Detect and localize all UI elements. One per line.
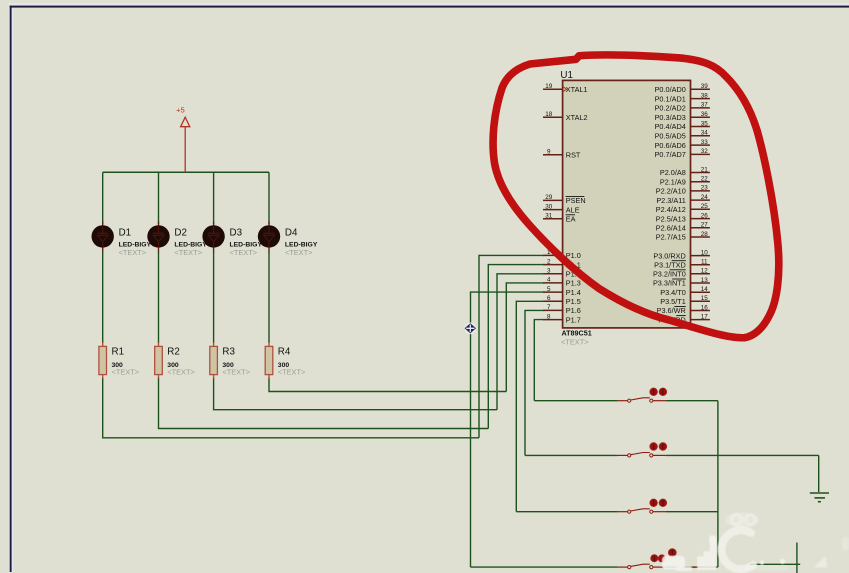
svg-text:21: 21 <box>701 166 709 173</box>
wire switch row SW1 left <box>534 400 618 402</box>
pin 18 XTAL2 (left) <box>543 111 588 122</box>
svg-text:P0.2/AD2: P0.2/AD2 <box>655 104 686 113</box>
pin 2 P1.1 (left) <box>543 258 581 269</box>
wire P1.3 to bus vertical <box>506 283 544 392</box>
svg-text:PSEN: PSEN <box>566 196 586 205</box>
svg-text:ALE: ALE <box>566 205 580 214</box>
switch SW3 <box>618 499 667 513</box>
svg-text:P2.0/A8: P2.0/A8 <box>660 168 686 177</box>
svg-text:15: 15 <box>701 295 709 302</box>
svg-text:XTAL2: XTAL2 <box>566 113 588 122</box>
wire SW2 to ground <box>818 455 820 492</box>
svg-text:9: 9 <box>547 149 551 156</box>
svg-text:19: 19 <box>545 83 553 90</box>
pin 6 P1.5 (left) <box>543 295 581 306</box>
pin 25 P2.4/A12 (right) <box>656 203 710 214</box>
pin 8 P1.7 (left) <box>543 313 581 324</box>
pin 30 ALE (left) <box>543 203 580 214</box>
pin 28 P2.7/A15 (right) <box>656 231 710 242</box>
svg-text:P3.0/RXD: P3.0/RXD <box>653 251 685 260</box>
pin 33 P0.6/AD6 (right) <box>655 139 710 150</box>
svg-text:<TEXT>: <TEXT> <box>119 248 147 257</box>
svg-text:<TEXT>: <TEXT> <box>285 248 313 257</box>
svg-text:P2.5/A13: P2.5/A13 <box>656 214 686 223</box>
wire switch row SW4 right <box>665 566 718 568</box>
pin 35 P0.4/AD4 (right) <box>655 120 710 131</box>
wire LED/resistor column D3 <box>214 172 497 409</box>
svg-text:36: 36 <box>701 111 709 118</box>
power terminal +5 <box>176 106 190 173</box>
pin 4 P1.3 (left) <box>543 277 581 288</box>
wire switch row SW4 left <box>471 566 618 568</box>
svg-text:28: 28 <box>701 231 709 238</box>
svg-text:4: 4 <box>547 277 551 284</box>
svg-text:P1.6: P1.6 <box>566 306 581 315</box>
pin 10 P3.0/RXD (right) <box>653 249 710 260</box>
resistor R2 <box>155 346 195 376</box>
wire P1.7 to bus vertical <box>534 320 544 401</box>
svg-text:26: 26 <box>701 212 709 219</box>
wire switch row SW3 right <box>665 511 718 513</box>
pin 15 P3.5/T1 (right) <box>660 295 710 306</box>
wire P1.0 to bus vertical <box>479 255 545 437</box>
pin 21 P2.0/A8 (right) <box>660 166 710 177</box>
svg-text:U1: U1 <box>560 70 573 81</box>
pin 16 P3.6/WR (right) <box>657 304 710 315</box>
svg-text:10: 10 <box>701 249 709 256</box>
pin 32 P0.7/AD7 (right) <box>655 148 710 159</box>
svg-text:34: 34 <box>701 130 709 137</box>
pin 29 PSEN (left) <box>543 194 586 205</box>
wire P1.6 to bus vertical <box>525 310 545 455</box>
svg-text:P0.5/AD5: P0.5/AD5 <box>655 132 686 141</box>
svg-text:27: 27 <box>701 222 709 229</box>
wire switch row SW1 right <box>665 400 718 402</box>
svg-text:P2.6/A14: P2.6/A14 <box>656 224 686 233</box>
svg-text:D2: D2 <box>174 227 187 238</box>
svg-text:P3.1/TXD: P3.1/TXD <box>654 260 686 269</box>
wire P1.2 to bus vertical <box>497 274 545 410</box>
wire LED/resistor column D4 <box>269 172 506 391</box>
svg-text:12: 12 <box>701 268 709 275</box>
pin 36 P0.3/AD3 (right) <box>655 111 710 122</box>
svg-text:R4: R4 <box>278 347 291 358</box>
svg-text:<TEXT>: <TEXT> <box>174 248 202 257</box>
pin 24 P2.3/A11 (right) <box>656 194 710 205</box>
pin 3 P1.2 (left) <box>543 268 581 279</box>
svg-text:<TEXT>: <TEXT> <box>222 367 250 376</box>
pin 37 P0.2/AD2 (right) <box>655 102 710 113</box>
svg-text:P3.6/WR: P3.6/WR <box>657 306 686 315</box>
pin 9 RST (left) <box>543 149 581 160</box>
svg-text:5: 5 <box>547 286 551 293</box>
svg-text:AT89C51: AT89C51 <box>562 329 592 338</box>
wire LED/resistor column D2 <box>159 172 489 428</box>
pin 5 P1.4 (left) <box>543 286 581 297</box>
svg-text:D4: D4 <box>285 227 298 238</box>
pin 39 P0.0/AD0 (right) <box>655 83 710 94</box>
svg-text:P2.2/A10: P2.2/A10 <box>656 187 686 196</box>
svg-text:P3.3/INT1: P3.3/INT1 <box>653 279 686 288</box>
node +5 power bus wire <box>103 171 269 173</box>
LED D1 labels <box>119 227 152 257</box>
node marker (blue diamond cursor) <box>465 323 477 335</box>
svg-text:P0.7/AD7: P0.7/AD7 <box>655 150 686 159</box>
svg-text:6: 6 <box>547 295 551 302</box>
svg-text:13: 13 <box>701 277 709 284</box>
svg-text:11: 11 <box>701 259 708 266</box>
ground <box>810 493 829 502</box>
pin 26 P2.5/A13 (right) <box>656 212 710 223</box>
wire switch row SW2 left <box>525 454 618 456</box>
svg-text:EA: EA <box>566 215 576 224</box>
LED D4 labels <box>285 227 318 257</box>
wire junction vertical SW1/SW3/SW4 <box>717 401 719 567</box>
LED D3 labels <box>230 227 263 257</box>
svg-text:<TEXT>: <TEXT> <box>230 248 258 257</box>
svg-text:24: 24 <box>701 194 709 201</box>
svg-text:2: 2 <box>547 258 551 265</box>
pin 12 P3.2/INT0 (right) <box>653 268 710 279</box>
switch SW4 buttons <box>651 549 702 567</box>
LED D2 labels <box>174 227 207 257</box>
wire switch row SW3 left <box>516 511 618 513</box>
svg-text:P2.7/A15: P2.7/A15 <box>656 233 686 242</box>
pin 34 P0.5/AD5 (right) <box>655 130 710 141</box>
svg-text:<TEXT>: <TEXT> <box>561 337 589 346</box>
svg-text:35: 35 <box>701 120 709 127</box>
svg-text:18: 18 <box>545 111 553 118</box>
svg-text:P0.1/AD1: P0.1/AD1 <box>655 94 686 103</box>
svg-text:P1.4: P1.4 <box>566 288 581 297</box>
svg-text:P3.2/INT0: P3.2/INT0 <box>653 270 686 279</box>
resistor R3 <box>210 346 250 376</box>
svg-text:30: 30 <box>545 203 553 210</box>
wire bottom-right stub <box>750 543 800 573</box>
pin 31 EA (left) <box>543 213 576 224</box>
svg-text:D1: D1 <box>119 227 132 238</box>
svg-text:P3.5/T1: P3.5/T1 <box>660 297 686 306</box>
svg-text:25: 25 <box>701 203 709 210</box>
microcontroller U1 AT89C51 <box>560 70 690 346</box>
svg-text:R3: R3 <box>222 347 235 358</box>
resistor R1 <box>99 346 139 376</box>
LED D3 <box>202 225 224 247</box>
svg-text:R2: R2 <box>167 347 180 358</box>
svg-text:P2.3/A11: P2.3/A11 <box>656 196 685 205</box>
pin 14 P3.4/T0 (right) <box>660 286 710 297</box>
svg-text:17: 17 <box>701 313 709 320</box>
pin 19 XTAL1 (left) <box>543 83 588 94</box>
svg-text:R1: R1 <box>112 347 125 358</box>
svg-text:P0.4/AD4: P0.4/AD4 <box>655 122 686 131</box>
pin 7 P1.6 (left) <box>543 304 581 315</box>
pin 22 P2.1/A9 (right) <box>660 176 710 187</box>
wire P1.4 to bus vertical <box>471 292 545 567</box>
pin 27 P2.6/A14 (right) <box>656 222 710 233</box>
svg-text:16: 16 <box>701 304 709 311</box>
svg-text:31: 31 <box>545 213 553 220</box>
LED D1 <box>92 225 114 247</box>
svg-text:P1.3: P1.3 <box>566 279 581 288</box>
svg-text:8: 8 <box>547 313 551 320</box>
svg-text:32: 32 <box>701 148 709 155</box>
wire P1.1 to bus vertical <box>488 265 544 429</box>
svg-text:P0.0/AD0: P0.0/AD0 <box>655 85 686 94</box>
svg-text:+5: +5 <box>176 106 185 115</box>
svg-text:37: 37 <box>701 102 709 109</box>
svg-text:P0.6/AD6: P0.6/AD6 <box>655 141 686 150</box>
svg-text:29: 29 <box>545 194 553 201</box>
svg-text:P2.4/A12: P2.4/A12 <box>656 205 686 214</box>
svg-text:P1.7: P1.7 <box>566 315 581 324</box>
pin 17 P3.7/RD (right) <box>658 313 710 324</box>
switch SW2 <box>618 443 667 457</box>
svg-text:XTAL1: XTAL1 <box>566 85 588 94</box>
svg-text:RST: RST <box>566 150 581 159</box>
svg-text:<TEXT>: <TEXT> <box>278 367 306 376</box>
LED D4 <box>258 225 280 247</box>
svg-text:14: 14 <box>701 286 709 293</box>
resistor R4 <box>265 346 305 376</box>
wire LED/resistor column D1 <box>103 172 479 438</box>
svg-text:P0.3/AD3: P0.3/AD3 <box>655 113 686 122</box>
wire switch row SW2 right <box>665 454 818 456</box>
pin 1 P1.0 (left) <box>543 249 581 260</box>
switch SW4 <box>618 564 666 569</box>
LED D2 <box>147 225 169 247</box>
pin 13 P3.3/INT1 (right) <box>653 277 710 288</box>
pin 23 P2.2/A10 (right) <box>656 185 710 196</box>
svg-text:3: 3 <box>547 268 551 275</box>
wire P1.5 to bus vertical <box>516 301 544 511</box>
svg-text:P3.4/T0: P3.4/T0 <box>660 288 686 297</box>
pin 11 P3.1/TXD (right) <box>654 259 710 270</box>
switch SW1 <box>618 388 667 402</box>
svg-text:<TEXT>: <TEXT> <box>112 367 140 376</box>
svg-text:7: 7 <box>547 304 551 311</box>
svg-text:<TEXT>: <TEXT> <box>167 367 195 376</box>
svg-text:39: 39 <box>701 83 709 90</box>
svg-text:D3: D3 <box>230 227 243 238</box>
svg-text:38: 38 <box>701 92 709 99</box>
svg-text:33: 33 <box>701 139 709 146</box>
svg-text:23: 23 <box>701 185 709 192</box>
red hand-drawn marker circle around U1 <box>493 55 779 338</box>
svg-text:P1.5: P1.5 <box>566 297 581 306</box>
svg-text:P2.1/A9: P2.1/A9 <box>660 177 686 186</box>
svg-text:22: 22 <box>701 176 709 183</box>
pin 38 P0.1/AD1 (right) <box>655 92 710 103</box>
